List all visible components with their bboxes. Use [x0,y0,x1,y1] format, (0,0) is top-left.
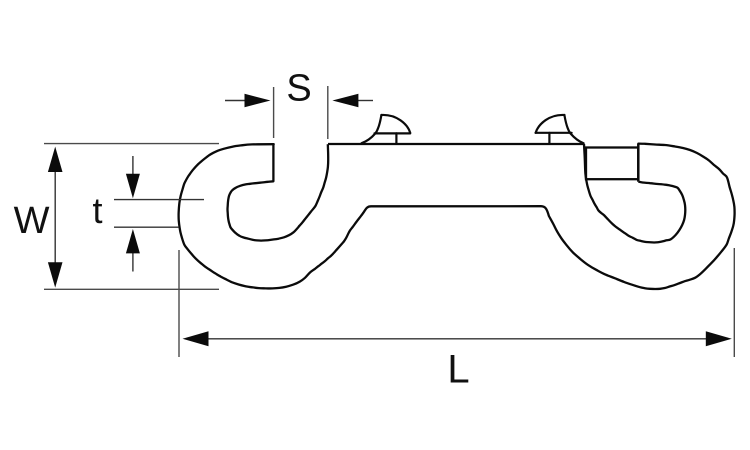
dimension W: vertical line with arrows [54,172,56,263]
dimension t: upper arrow [132,156,134,174]
dimension t: upper line [114,199,204,201]
dimension S: right arrow [357,100,373,102]
gate box right edge / nose left edge [637,144,640,182]
dimension L: right arrowhead [706,331,732,346]
dimension W: top extension line [44,143,219,145]
dimension L: line [207,338,708,340]
svg-text:S: S [286,67,311,109]
rivet R2 (right) [536,115,584,144]
svg-text:L: L [447,347,469,391]
svg-text:t: t [92,190,102,231]
dimension W: bottom extension line [44,288,219,290]
dimension t: lower line [114,226,179,228]
snap hook outer outline [179,144,735,289]
dimension S: right extension line [327,86,329,139]
dimension S: left arrow [225,100,246,102]
left hook inner opening (hole + mouth channel) [228,144,329,240]
body top edge line [328,143,584,145]
dimension L: right extension line [733,248,735,357]
right hook inner opening (teardrop) [584,144,685,242]
svg-text:W: W [14,200,50,242]
dimension L: left arrowhead [183,331,209,346]
dimension t: lower arrow [132,253,134,272]
dimension S: left extension line [273,87,275,138]
gate slider box [586,148,638,180]
rivet R1 (left) [362,115,411,143]
dimension L: left extension line [178,250,180,357]
